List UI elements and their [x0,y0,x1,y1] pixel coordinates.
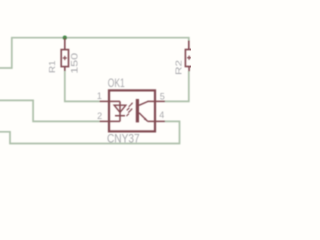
LED cathode lead [119,116,121,122]
svg-text:4: 4 [159,110,164,120]
LED triangle [114,105,126,112]
wire bottom net to pin4 [0,121,180,143]
svg-text:150: 150 [70,53,80,74]
svg-text:OK1: OK1 [108,78,125,90]
wire left net to pin2 [0,100,100,121]
LED cathode bar [115,115,125,117]
wire R2 to pin5 [165,71,189,101]
LED anode lead [119,101,121,115]
phototransistor collector [139,101,148,105]
resistor R1 [61,38,68,71]
photon arrow 1 [127,104,132,110]
svg-text:R1: R1 [47,60,57,73]
svg-text:2: 2 [97,111,102,121]
wire top net [0,38,189,68]
emitter arrowhead [144,118,147,121]
pin 1 [100,100,121,102]
pin 2 [100,120,121,122]
svg-text:1: 1 [97,91,102,101]
resistor R2 [185,41,192,72]
svg-text:5: 5 [160,91,165,101]
phototransistor emitter [139,113,148,122]
phototransistor base bar [136,99,139,122]
svg-text:R2: R2 [173,60,183,75]
junction [63,36,67,40]
wire R1 to pin1 [65,71,100,101]
svg-text:CNY37: CNY37 [107,133,140,145]
photon arrow 2 [126,110,131,116]
pin 5 [148,100,166,102]
op-to coupler OK1 box [109,90,155,131]
pin 4 [148,120,165,122]
